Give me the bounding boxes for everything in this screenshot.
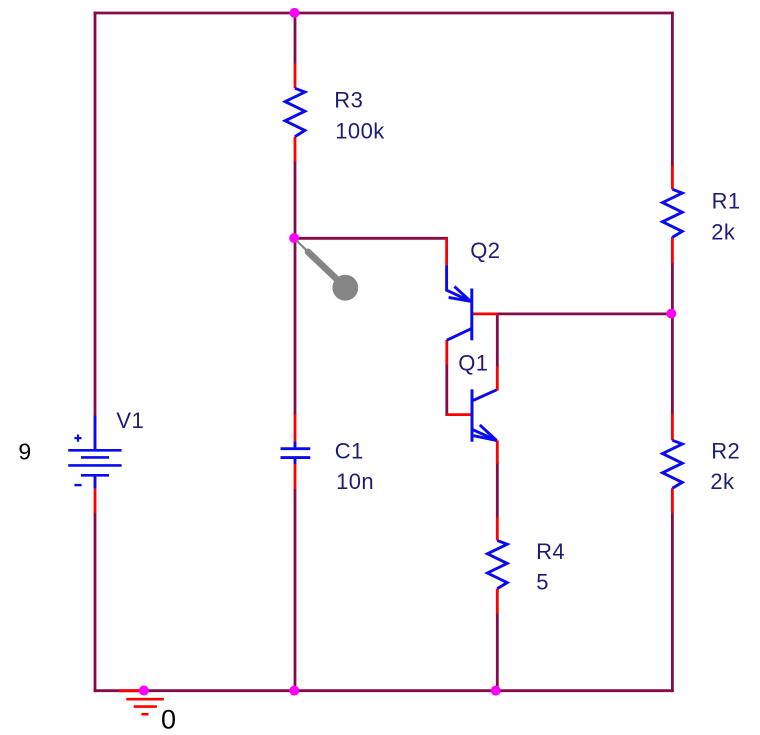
wire node A to C1 (294, 238, 297, 414)
battery V1 plus mark (74, 435, 81, 442)
transistor Q1 emitter arrow (474, 425, 497, 441)
junction node at right rail R1 R2 (666, 309, 676, 319)
resistor R3 body (285, 88, 305, 136)
pin C1 bottom (294, 464, 297, 489)
svg-text:C1: C1 (335, 439, 364, 464)
wire left rail lower (94, 513, 97, 690)
pin Q2 base (472, 312, 498, 315)
pin R1 bottom (671, 237, 674, 264)
resistor R1 body (663, 189, 683, 237)
wire right rail lower (671, 513, 674, 691)
svg-text:Q2: Q2 (470, 238, 500, 263)
pin Q1 base (447, 413, 472, 416)
pin Q1 collector (496, 366, 499, 391)
junction node at C1 bottom rail (289, 686, 299, 696)
svg-text:Q1: Q1 (458, 350, 488, 375)
pin ground (119, 689, 144, 692)
svg-text:R4: R4 (536, 539, 565, 564)
transistor Q2 base bar (470, 289, 473, 341)
wire node A to Q2 emitter (295, 237, 447, 240)
resistor R4 body (487, 541, 507, 589)
wire Q2 base to right rail (497, 312, 672, 315)
wire top rail (95, 12, 672, 15)
transistor Q1 emitter lead (472, 429, 497, 440)
pin R3 top (294, 63, 297, 88)
pin R4 bottom (496, 589, 499, 614)
svg-text:V1: V1 (116, 408, 144, 433)
probe marker (297, 241, 359, 301)
capacitor C1 body (281, 441, 311, 464)
pin Q2 collector (445, 340, 448, 365)
wire R3 top stub (294, 13, 297, 63)
transistor Q1 base bar (471, 389, 474, 441)
pin Q1 emitter (496, 440, 499, 464)
svg-text:2k: 2k (711, 219, 736, 244)
svg-text:R3: R3 (334, 87, 363, 112)
wire Q2 base node down to Q1 collector (496, 314, 499, 366)
svg-text:R1: R1 (712, 189, 741, 214)
pin V1 bottom (94, 489, 97, 514)
transistor Q2 emitter arrow (449, 287, 471, 302)
wire bottom rail (95, 689, 672, 692)
transistor Q1 collector lead (472, 390, 496, 401)
junction node at R4 bottom rail (491, 686, 501, 696)
svg-text:10n: 10n (336, 469, 374, 494)
pin R4 top (496, 517, 499, 541)
junction node at top rail and R3 (290, 8, 300, 18)
wire C1 to bottom rail (294, 489, 297, 691)
pin R3 bottom (294, 137, 297, 162)
svg-text:2k: 2k (710, 469, 735, 494)
transistor Q2 emitter lead (447, 265, 471, 301)
pin R1 top (671, 165, 674, 189)
battery V1 body (68, 416, 121, 489)
svg-text:0: 0 (161, 704, 176, 734)
pin Q2 emitter (445, 238, 448, 265)
ground symbol (126, 699, 164, 714)
wire R3 to node A (294, 162, 297, 238)
wire Q2 collector to Q1 base (445, 365, 448, 415)
svg-text:9: 9 (18, 439, 31, 465)
pin R2 bottom (671, 488, 674, 513)
pin R2 top (671, 414, 674, 441)
svg-text:100k: 100k (335, 119, 385, 144)
junction node at ground (139, 686, 149, 696)
battery V1 minus mark (74, 484, 81, 486)
svg-text:R2: R2 (711, 439, 740, 464)
svg-text:5: 5 (536, 570, 549, 595)
wire Q1 emitter to R4 (496, 464, 499, 517)
transistor Q2 collector lead (447, 328, 472, 340)
resistor R2 body (663, 440, 683, 488)
wire right rail upper (671, 13, 674, 165)
junction node A at R3 C1 Q2 (289, 233, 299, 243)
wire right rail middle (671, 263, 674, 413)
pin C1 top (294, 414, 297, 441)
wire left rail upper (94, 13, 97, 416)
wire R4 to bottom rail (496, 614, 499, 691)
